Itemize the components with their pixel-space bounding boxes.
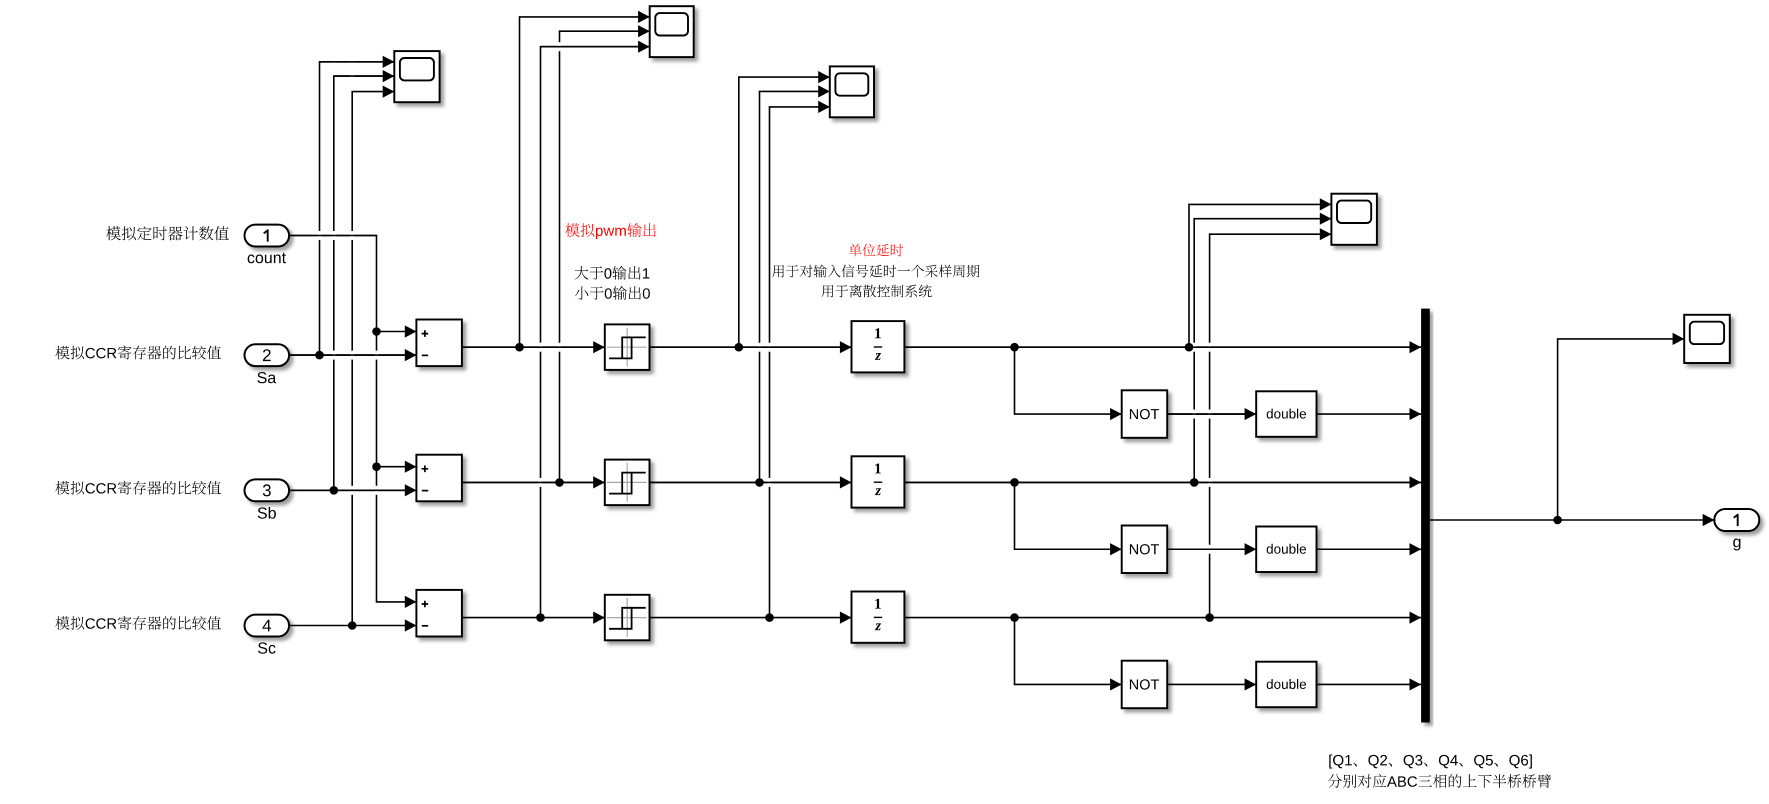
junction delayB to scope4	[1190, 478, 1199, 487]
wire crossing hop gaps	[318, 42, 1212, 554]
wire Sc net port4 to sumC minus and scope1 in3	[289, 92, 416, 626]
scope block Scope2 (sum outputs)	[650, 6, 694, 57]
sum block SumB	[416, 455, 462, 502]
junction Sb riser	[330, 486, 339, 495]
wire sumC output to relayC and scope2 in3	[462, 47, 650, 618]
annotation 模拟pwm输出 (red)	[565, 223, 656, 239]
junction relayA riser	[735, 343, 744, 352]
double input arrows	[1245, 408, 1257, 691]
junction relayC riser	[765, 613, 774, 622]
annotation label 模拟CCR寄存器的比较值 for port Sa	[55, 346, 221, 360]
scope block Scope1 (inputs Sa Sb Sc)	[394, 51, 439, 102]
data-type-conversion block double C	[1256, 662, 1316, 708]
scope block Scope5 (mux output)	[1684, 315, 1730, 363]
input port 4 Sc	[245, 615, 290, 654]
output port 1 g	[1714, 509, 1759, 551]
wire delayC output to mux in5 with NOTC branch and scope4 in3	[905, 234, 1421, 684]
annotation 用于对输入信号延时一个采样周期	[772, 265, 979, 278]
junction delayB to NOTB	[1010, 478, 1019, 487]
sumB input arrows	[405, 461, 417, 497]
mux input arrows	[1410, 341, 1422, 690]
wire NOTB to doubleB	[1167, 548, 1256, 550]
input port 2 Sa	[245, 344, 290, 383]
annotation 用于离散控制系统	[822, 285, 932, 298]
junction delayC to scope4	[1205, 613, 1214, 622]
logic NOT block A	[1122, 390, 1168, 438]
relay block RelayA	[605, 324, 650, 370]
wire relayC output to delayC and scope3 in3	[650, 107, 852, 618]
junction sumB riser	[555, 478, 564, 487]
wire count net from port1 down to sum plus inputs	[289, 236, 416, 602]
junction sumA riser	[515, 343, 524, 352]
data-type-conversion block double A	[1256, 391, 1316, 437]
logic NOT block B	[1122, 526, 1168, 574]
annotation [Q1、Q2、Q3、Q4、Q5、Q6]	[1329, 755, 1532, 769]
mux block (6 gate signals to vector g)	[1421, 309, 1430, 723]
delay input arrows	[840, 341, 852, 624]
junction Sa riser	[315, 351, 324, 360]
wire doubleA to mux in2	[1317, 413, 1422, 415]
annotation label 模拟定时器计数值 for port count	[106, 226, 229, 240]
wire NOTC to doubleC	[1167, 683, 1256, 685]
wire sumA output to relayA and scope2 in1	[462, 17, 650, 347]
wire delayB output to mux in3 with NOTB branch and scope4 in2	[905, 219, 1421, 550]
junction relayB riser	[755, 478, 764, 487]
sum block SumC	[416, 590, 462, 637]
scope3 input arrows	[818, 71, 830, 113]
wire doubleC to mux in6	[1317, 683, 1422, 685]
junction Sc riser	[348, 621, 357, 630]
annotation label 模拟CCR寄存器的比较值 for port Sc	[55, 616, 221, 630]
wire doubleB to mux in4	[1317, 548, 1422, 550]
scope2 input arrows	[638, 11, 650, 53]
relay block RelayB	[605, 460, 650, 506]
sumC input arrows	[405, 596, 417, 632]
wire delayA output to mux in1 with NOTA branch and scope4 in1	[905, 204, 1421, 414]
wire horizontal segments redrawn over hop gaps	[289, 47, 1421, 550]
relay block RelayC	[605, 595, 650, 641]
junction count to sumB plus	[372, 462, 381, 471]
junction count to sumA plus	[372, 327, 381, 336]
scope5 input arrow	[1673, 333, 1685, 345]
wire relayB output to delayB and scope3 in2	[650, 91, 852, 482]
scope block Scope3 (relay outputs)	[830, 66, 874, 117]
annotation 单位延时 (red)	[849, 244, 903, 257]
junction delayC to NOTC	[1010, 613, 1019, 622]
relay input arrows	[593, 341, 605, 624]
input port 3 Sb	[245, 479, 290, 518]
wire sumB output to relayB and scope2 in2	[462, 31, 650, 482]
scope1 input arrows	[383, 56, 395, 98]
unit-delay block 1/z A	[852, 321, 905, 372]
wire Sa net port2 to sumA minus and scope1 in1	[289, 62, 416, 355]
junction delayA to NOTA	[1010, 343, 1019, 352]
port g input arrow	[1703, 514, 1715, 526]
junction mux output to scope5	[1553, 516, 1562, 525]
sumA input arrows	[405, 325, 417, 361]
annotation 大于0输出1	[575, 266, 650, 280]
junction sumC riser	[536, 613, 545, 622]
unit-delay block 1/z C	[852, 592, 905, 643]
junction delayA to scope4	[1185, 343, 1194, 352]
sum block SumA	[416, 320, 462, 367]
wire Sb net port3 to sumB minus and scope1 in2	[289, 76, 416, 490]
logic NOT block C	[1122, 661, 1168, 709]
NOT input arrows	[1110, 408, 1122, 691]
scope block Scope4 (delay outputs)	[1331, 194, 1377, 245]
annotation 小于0输出0	[575, 286, 650, 300]
scope4 input arrows	[1320, 198, 1332, 240]
input port 1 count	[245, 225, 290, 264]
wire mux output to port g and scope5	[1430, 339, 1715, 520]
wire relayA output to delayA and scope3 in1	[650, 77, 852, 347]
unit-delay block 1/z B	[852, 456, 905, 507]
annotation 分别对应ABC三相的上下半桥桥臂	[1328, 774, 1551, 788]
wire NOTA to doubleA	[1167, 413, 1256, 415]
annotation label 模拟CCR寄存器的比较值 for port Sb	[55, 481, 221, 495]
data-type-conversion block double B	[1256, 527, 1316, 573]
